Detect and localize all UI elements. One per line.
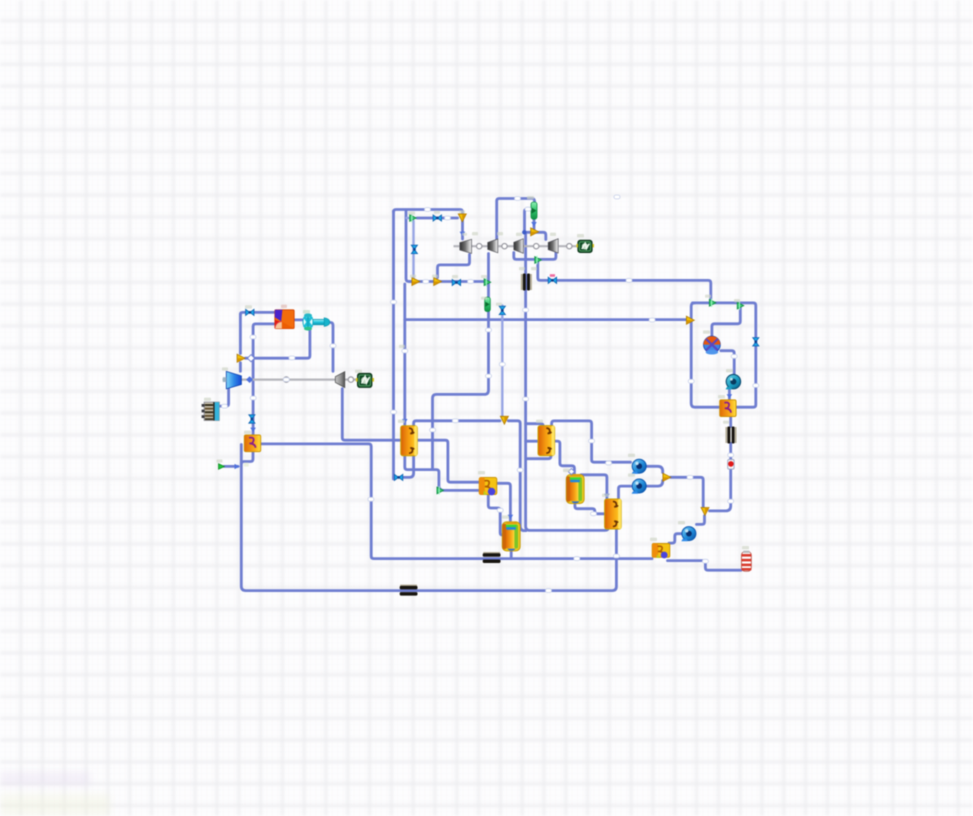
wire E-104 top right to pump P-102 [619,486,631,500]
wire compressor K-101 outlet to mixer MIX-103 [438,255,470,278]
wire pump P-104 outlet to cooler AC-101 [669,534,682,543]
wire light vertical through valve VLV-104 [501,306,503,417]
valve VLV-107 vertical [753,338,759,346]
LNG exchanger LNG-100 [521,274,532,291]
pump P-103 teal [726,374,741,389]
compressor K-103 [514,239,524,254]
mixer MIX-102 [412,278,420,286]
valve VLV-101 vertical [249,415,255,423]
compressor K-104 [548,239,558,253]
wire cooler AC-102 right outlet to separator V-101 top [497,483,511,520]
motor M-100 [356,373,374,387]
wire mixer MIX-100 down to compressor K-106 [239,363,242,371]
exchanger E-100 [244,435,260,452]
air cooler AC-100 round [704,336,721,354]
valve VLV-108 [548,274,556,283]
green tee TEE-105 [709,299,715,307]
exchanger E-102 plate [401,426,418,456]
wire K-100 shaft end down to expander K-105 [331,323,333,372]
white oval stream markers [222,195,759,592]
wire compressor K-103 inlet loop over top [497,199,535,240]
wire E-102 top right to mixer MIX-105 [414,421,500,426]
wire E-102 bottom left through tee to cooler AC-102 [405,456,479,491]
mixer MIX-100 [237,354,245,362]
wire compressor K-106 outlet to cooler E-105 [220,389,229,406]
column C-100 red striped [742,551,752,572]
wire mixer MIX-104 left stub to junction [525,231,531,234]
wire vertical valve line to mixer MIX-100 [239,315,242,354]
wire big recycle return y590.6 [241,445,616,591]
expander K-105 [335,372,345,388]
mixer MIX-103 [434,278,442,286]
compressor K-101 [460,239,472,253]
wire feed stream arrow line [224,465,238,468]
wire valve VLV-100 to heater inlet [255,311,275,314]
wire tee TEE-101 down to mixer MIX-102 [406,211,412,282]
mixer MIX-107 [686,316,694,324]
wire mixer MIX-106 outlet down to MIX-108 [670,477,703,507]
wire branch through valve VLV-102 [412,221,414,278]
LNG exchanger LNG-102 horizontal [483,552,501,563]
cooler E-105 striped [202,402,220,420]
wire vertical into E-102 top left [403,284,406,426]
bottom-left tint smudges [0,772,110,816]
wire discharge header y280.5 to condenser loop [556,280,711,299]
wire stub into E-103 left [526,440,538,443]
green tee TEE-102 [484,278,490,286]
valve VLV-100 [246,309,254,315]
feed stream arrow [219,464,241,469]
pump P-102 [632,479,647,494]
wire recycle top-left corner to mixer MIX-101 [394,210,463,240]
cooler AC-102 yellow [479,477,497,495]
wire pump P-103 outlet to E-107 [728,389,731,400]
wire long vertical anti-surge line [392,211,395,479]
wire E-103 right mid to separator V-100 [554,441,574,474]
separator V-101 [502,521,520,551]
wire tee TEE-100 left stub [407,217,410,219]
wire second heater inlet line [253,324,275,434]
wire valve VLV-103 stub [394,476,396,479]
mixer MIX-104 [531,228,539,236]
valve VLV-105 [433,215,441,221]
exchanger E-103 plate [538,426,555,456]
wire compressor K-102 outlet down and to E-101 [433,254,489,470]
wire tee TEE-106 branch to air cooler AC-100 [712,308,740,336]
wire LNG-101 through relief to mixer MIX-108 [710,443,731,511]
green tee TEE-104 [535,256,541,264]
wire cooler AC-101 outlet to column C-100 [668,561,742,571]
valve VLV-102 vertical [411,245,417,253]
heater H-100 [275,310,294,329]
wire suction header row y281.5 [409,280,485,283]
mixer MIX-105 [500,416,508,424]
green check valve CK-101 [485,297,491,311]
valve VLV-104 small [499,306,505,314]
LNG exchanger LNG-103 horizontal [400,585,418,596]
relief valve with red ball [728,460,734,470]
motor M-101 [576,240,594,252]
wire feed through valve VLV-100 to heater H-100 [240,312,245,315]
wire mixer MIX-105 outlet down to E-104 header [508,421,526,531]
wire tee TEE-104 branch down [538,262,549,281]
valve VLV-106 [452,279,460,285]
mixer MIX-106 [663,473,671,481]
wire E-100 cold outlet to recycle junction [241,452,253,464]
exchanger E-104 plate [605,499,622,529]
wire mixer MIX-100 outlet to K-100 spill [245,330,310,358]
pump P-101 [632,459,647,474]
wire cooler AC-102 bottom outlet to separator V-101 [488,495,503,535]
junction dot [522,230,526,234]
wire pump P-102 outlet to mixer MIX-106 [646,481,662,487]
faint equipment label tags [204,196,749,549]
blue arrows on streams [250,232,732,520]
LNG exchanger LNG-101 [726,427,737,444]
wire E-107 to LNG-101 [729,417,732,427]
blue marker under check valve [531,222,537,227]
pump P-104 [681,527,696,542]
shaft K-106 to K-105 [223,379,358,381]
shaft compressor train [454,245,578,247]
shaft wheel circles [284,244,572,383]
wire E-102 bottom right to valve VLV-103 [403,456,414,478]
wire separator V-100 vapour to E-104 [581,475,607,500]
expander K-100 with shaft [303,313,330,330]
wire E-103 bottom left return [526,456,551,459]
junction diamond on shaft crossing [247,355,254,362]
green check valve tall CK-100 [531,202,537,219]
wire separator V-100 liquid to E-104 left [575,504,605,514]
valve VLV-103 [394,474,402,480]
wire mixer MIX-108 outlet to pump P-104 [697,516,705,525]
wire expander K-105 outlet to cooler AC-102 [342,389,479,483]
wire mixer MIX-104 to compressor K-104 inlet [535,232,546,239]
wire separator V-101 bottom to header [510,552,513,559]
wire pump P-101 outlet to mixer MIX-106 [646,466,662,472]
wire stub into E-103 top left [526,424,543,426]
wire condenser loop left leg to E-106 [691,303,719,407]
wire crossover U under K-103/K-104 [514,253,556,260]
wire tee to mixer row y218 [417,217,458,220]
wire check valve to mixer MIX-104 [533,219,536,231]
wire air cooler AC-100 outlet to pump P-103 [721,351,734,374]
compressor K-106 [223,371,242,389]
mixer MIX-108 [701,508,709,516]
cooler AC-101 yellow [652,544,670,559]
separator V-100 [566,474,584,504]
wire long header y319.6 to mixer MIX-107 [405,318,687,321]
green tee TEE-100 [410,214,416,222]
wire junction up to check valve inlet [525,209,531,231]
green tee TEE-106 [737,301,743,309]
wire E-103 top right to pump P-101 [552,421,631,462]
wire long vertical through LNG-100 down to E-104 bottom [526,234,609,530]
green tee TEE-103 [437,486,443,494]
mixer MIX-101 [458,214,466,222]
compressor K-102 [488,239,498,253]
blue diamond marker on shaft [246,376,253,383]
wire heater H-100 outlet to K-100 [294,318,303,321]
wire condenser loop right leg through VLV-107 [693,303,756,407]
wire E-100 hot out long bottom header y558.6 [261,444,652,559]
exchanger E-107 [720,400,736,417]
